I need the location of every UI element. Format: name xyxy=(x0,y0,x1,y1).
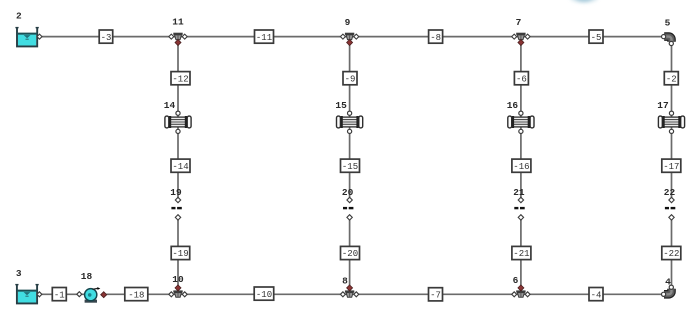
pipe -4 label box xyxy=(589,288,603,301)
svg-text:2: 2 xyxy=(16,11,22,22)
pipe -7 label box xyxy=(429,288,443,301)
pipe -18 label box xyxy=(125,288,148,301)
svg-text:18: 18 xyxy=(81,271,93,282)
pipe -1 label box xyxy=(52,288,66,301)
heat exchanger 17 xyxy=(658,111,684,133)
svg-text:-5: -5 xyxy=(591,33,602,43)
wire branch upper column 16 xyxy=(520,45,522,198)
node 19 (dashed connector) xyxy=(171,197,181,220)
svg-text:14: 14 xyxy=(164,100,176,111)
wire top main line xyxy=(42,36,663,38)
pipe -11 label box xyxy=(255,30,274,43)
pipe -22 label box xyxy=(662,246,681,259)
pipe -20 label box xyxy=(341,246,360,259)
pipe -19 label box xyxy=(171,246,190,259)
svg-text:-20: -20 xyxy=(342,249,358,259)
svg-text:-19: -19 xyxy=(172,249,188,259)
svg-text:3: 3 xyxy=(16,268,22,279)
node 21 (dashed connector) xyxy=(514,197,524,220)
pipe -10 label box xyxy=(254,287,274,300)
svg-text:-10: -10 xyxy=(256,290,272,300)
svg-text:16: 16 xyxy=(507,100,519,111)
svg-text:19: 19 xyxy=(170,187,182,198)
svg-text:-22: -22 xyxy=(663,249,679,259)
pipe -21 label box xyxy=(512,246,531,259)
svg-text:5: 5 xyxy=(665,18,671,29)
svg-text:-16: -16 xyxy=(513,162,529,172)
svg-text:20: 20 xyxy=(342,187,354,198)
svg-text:10: 10 xyxy=(172,274,184,285)
svg-text:-14: -14 xyxy=(172,162,188,172)
wire branch upper column 14 xyxy=(177,45,179,198)
tank 2 xyxy=(15,27,42,46)
tee junction node 6 xyxy=(512,285,530,297)
pipe -8 label box xyxy=(429,30,443,43)
wire bottom main line pump to elbow 4 xyxy=(106,293,662,295)
pipe -2 label box xyxy=(664,72,678,85)
svg-text:4: 4 xyxy=(665,277,671,288)
pipe -9 label box xyxy=(343,72,357,85)
svg-text:-21: -21 xyxy=(513,249,529,259)
wire branch lower column 17 xyxy=(671,220,673,285)
svg-text:6: 6 xyxy=(513,275,519,286)
svg-text:17: 17 xyxy=(657,100,669,111)
tee junction node 8 xyxy=(340,285,358,297)
svg-text:-8: -8 xyxy=(430,33,441,43)
svg-text:15: 15 xyxy=(335,100,347,111)
pipe -12 label box xyxy=(171,72,190,85)
svg-text:-12: -12 xyxy=(172,74,188,84)
pipe -5 label box xyxy=(589,30,603,43)
pipe -6 label box xyxy=(514,72,528,85)
svg-text:11: 11 xyxy=(172,17,184,28)
heat exchanger 15 xyxy=(337,111,363,133)
svg-text:-2: -2 xyxy=(666,74,677,84)
wire branch lower column 15 xyxy=(349,220,351,286)
pipe -3 label box xyxy=(99,30,113,43)
svg-text:-17: -17 xyxy=(663,162,679,172)
tank 3 xyxy=(15,284,42,303)
pipe -17 label box xyxy=(662,159,681,172)
tee junction node 7 xyxy=(512,33,530,46)
svg-text:-9: -9 xyxy=(345,74,356,84)
svg-text:-15: -15 xyxy=(342,162,358,172)
svg-text:-11: -11 xyxy=(256,33,272,43)
elbow fitting node 4 xyxy=(662,285,674,296)
svg-text:8: 8 xyxy=(342,276,348,287)
pipe -14 label box xyxy=(171,159,190,172)
heat exchanger 14 xyxy=(165,111,191,133)
pipe -16 label box xyxy=(512,159,531,172)
pipe -15 label box xyxy=(341,159,360,172)
svg-text:-7: -7 xyxy=(430,291,441,301)
svg-text:-3: -3 xyxy=(101,33,112,43)
svg-text:-18: -18 xyxy=(128,290,144,300)
wire bottom line tank3 to pump xyxy=(41,293,84,295)
svg-text:-6: -6 xyxy=(516,74,527,84)
wire branch upper column 17 xyxy=(671,45,673,198)
svg-text:7: 7 xyxy=(516,17,522,28)
wire branch upper column 15 xyxy=(349,45,351,198)
tee junction node 10 xyxy=(169,285,187,297)
svg-text:-4: -4 xyxy=(591,290,602,300)
tee junction node 9 xyxy=(340,33,358,46)
tee junction node 11 xyxy=(169,33,187,46)
elbow fitting node 5 xyxy=(662,35,674,46)
wire branch lower column 16 xyxy=(520,220,522,286)
wire branch lower column 14 xyxy=(177,220,179,286)
svg-text:21: 21 xyxy=(513,187,525,198)
node 22 (dashed connector) xyxy=(665,197,675,220)
svg-text:22: 22 xyxy=(664,187,676,198)
svg-text:-1: -1 xyxy=(54,290,65,300)
pump 18 xyxy=(77,287,107,303)
node 20 (dashed connector) xyxy=(343,197,353,220)
svg-text:9: 9 xyxy=(345,17,351,28)
faint blue artifact top edge xyxy=(569,0,599,4)
heat exchanger 16 xyxy=(508,111,534,133)
